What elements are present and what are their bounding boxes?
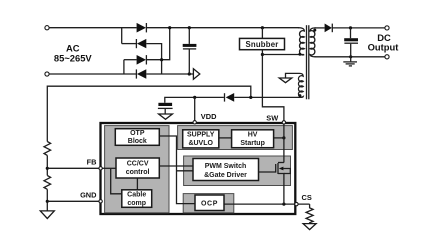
wire AC line 2 to bridge — [49, 73, 136, 75]
AC input terminal top — [45, 26, 49, 30]
wire between divider resistors — [46, 155, 48, 175]
svg-text:CC/CV: CC/CV — [127, 161, 149, 168]
pin circle VDD — [193, 121, 196, 124]
node HV SW junction — [282, 136, 285, 139]
svg-text:GND: GND — [80, 191, 97, 200]
label GND — [80, 191, 97, 200]
wire OCP to CS pin — [224, 203, 310, 205]
wire FB internal to CC/CV and cable comp — [102, 168, 122, 194]
AC input terminal bottom — [45, 72, 49, 76]
node negative bus junction — [188, 72, 191, 75]
svg-text:PWM Switch: PWM Switch — [205, 163, 247, 170]
wire R2 to ground — [46, 189, 48, 210]
svg-text:Block: Block — [128, 138, 147, 145]
wire D2 right to negative bus vertical — [146, 44, 161, 74]
wire HV startup to SW — [274, 137, 284, 139]
wire CC/CV to PWM — [159, 165, 193, 167]
pin circle GND — [99, 200, 102, 203]
label CS — [302, 193, 312, 202]
op-block PWM Switch & Gate Driver — [193, 159, 259, 181]
op-block OCP — [195, 195, 224, 211]
node mosfet source OCP junction — [282, 203, 285, 206]
svg-text:&Gate Driver: &Gate Driver — [204, 172, 247, 179]
wire secondary top to output diode — [315, 27, 325, 29]
diode D1 bridge — [137, 23, 147, 33]
wire bus branch to PWM — [177, 170, 194, 172]
diode D4 bridge — [136, 69, 146, 78]
secondary phase dot — [313, 29, 316, 32]
label FB — [87, 157, 97, 166]
node rail snubber junction — [261, 26, 264, 29]
wire output bottom line — [315, 56, 385, 58]
DC output terminal bottom — [385, 55, 389, 59]
capacitor C2 VDD — [158, 103, 173, 114]
node VDD junction — [193, 96, 196, 99]
transformer T1 secondary winding — [310, 28, 315, 57]
wire primary bottom — [262, 54, 303, 56]
pin circle SW — [282, 121, 285, 124]
diode D6 output rectifier — [325, 24, 333, 33]
resistor R3 current sense — [306, 204, 313, 223]
node rail bulk cap junction — [188, 26, 191, 29]
transformer T1 auxiliary winding — [286, 73, 304, 97]
wire SUPPLY to HV startup — [219, 137, 232, 139]
svg-text:85~265V: 85~265V — [54, 53, 93, 64]
DC output terminal top — [385, 26, 389, 30]
gray region pwm middle right — [184, 156, 291, 186]
diode D2 bridge — [136, 39, 146, 48]
IC U1 outer box — [101, 123, 296, 214]
wire VDD rail (cap corner to aux winding) — [165, 97, 224, 102]
wire aux feedback sense line — [47, 86, 251, 141]
snubber wire from rail through box to SW — [262, 28, 284, 164]
op-block OTP Block — [115, 129, 159, 146]
pin circle CS — [295, 202, 298, 205]
op-block HV Startup — [232, 130, 274, 148]
node GND tap — [46, 200, 49, 203]
svg-text:Output: Output — [368, 41, 399, 52]
op-block CC/CV control — [116, 158, 159, 178]
wire D2 left to vertical — [122, 43, 137, 45]
op-block Cable comp — [122, 190, 152, 208]
transformer T1 primary winding — [298, 28, 304, 55]
svg-text:&UVLO: &UVLO — [188, 140, 213, 147]
ground arrow left — [40, 211, 54, 219]
wire positive rail (bridge to transformer) — [147, 27, 299, 29]
connection arrow aux winding (points down) — [279, 78, 292, 83]
label VDD — [201, 112, 217, 121]
wire VDD down to IC pin — [194, 97, 196, 128]
svg-text:HV: HV — [248, 131, 258, 138]
svg-text:SUPPLY: SUPPLY — [187, 131, 215, 138]
primary phase dot — [298, 53, 301, 56]
node rail D3 junction — [168, 26, 171, 29]
diode D5 VDD rectifier (points left) — [225, 93, 235, 102]
label AC 85~265V — [54, 43, 93, 64]
wire CC/CV to cable comp — [136, 178, 138, 190]
wire bridge left vertical bottom (AC2 to D3) — [123, 60, 125, 74]
snubber box — [240, 38, 285, 49]
capacitor C3 output — [344, 28, 358, 57]
resistor R2 lower divider — [44, 176, 51, 190]
gray region analog blocks left — [105, 126, 169, 213]
svg-text:OCP: OCP — [201, 201, 218, 208]
diode D3 bridge — [137, 55, 147, 65]
resistor R1 upper divider — [44, 142, 51, 156]
svg-text:Startup: Startup — [240, 140, 265, 147]
svg-text:CS: CS — [302, 193, 312, 202]
svg-text:FB: FB — [87, 157, 97, 166]
gray region ocp bottom — [183, 194, 234, 213]
label SW — [266, 113, 278, 122]
wire output positive line — [332, 27, 385, 29]
svg-text:control: control — [126, 169, 150, 176]
node FB tap — [46, 167, 49, 170]
svg-text:SW: SW — [266, 113, 278, 122]
op-block SUPPLY &UVLO — [183, 130, 219, 148]
label DC Output — [368, 32, 399, 52]
wire bridge left vertical top (AC1 to D2) — [121, 28, 123, 44]
svg-text:Snubber: Snubber — [245, 40, 278, 49]
ground arrow CS — [303, 224, 316, 230]
svg-text:comp: comp — [127, 200, 146, 207]
transformer core — [307, 25, 309, 99]
capacitor C1 bulk — [183, 28, 197, 74]
ground arrow VDD cap — [159, 114, 173, 119]
node aux sense junction — [249, 96, 252, 99]
svg-text:Cable: Cable — [127, 191, 146, 198]
wire OTP to internal bus — [159, 136, 195, 204]
wire negative bus (D4 right to arrow) — [146, 73, 193, 75]
svg-text:VDD: VDD — [201, 112, 217, 121]
connection arrow negative bus (points right) — [193, 69, 199, 79]
earth ground secondary — [343, 57, 357, 66]
transistor Q1 power MOSFET — [259, 163, 291, 205]
node output cap top — [349, 26, 352, 29]
wire GND to IC — [47, 200, 100, 202]
gray region supply top right — [178, 126, 293, 150]
wire FB to IC — [47, 167, 100, 169]
node crossing blob — [160, 58, 163, 61]
node primary bottom junction — [261, 53, 264, 56]
wire D3 right up to positive rail — [146, 28, 169, 60]
wire D5 to aux winding bottom — [234, 96, 301, 98]
wire AC line 1 to bridge — [49, 27, 136, 29]
svg-text:OTP: OTP — [130, 130, 145, 137]
node output cap bottom — [349, 55, 352, 58]
wire SW inside IC to mosfet drain — [283, 123, 285, 163]
wire D3 left to vertical — [124, 59, 137, 61]
aux phase dot — [298, 94, 301, 97]
pin circle FB — [99, 167, 102, 170]
